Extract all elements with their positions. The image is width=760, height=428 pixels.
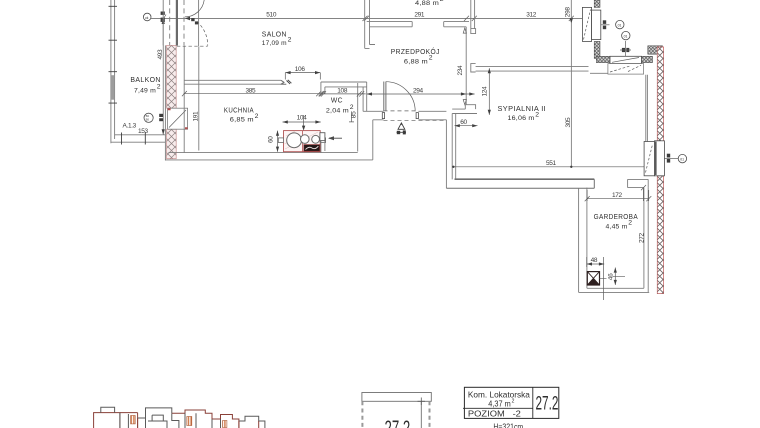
svg-text:4,37 m: 4,37 m <box>488 399 511 408</box>
kitchen counter line west <box>198 46 200 150</box>
svg-text:312: 312 <box>526 12 537 19</box>
center arrow to counter <box>303 115 305 129</box>
north window horizontal <box>610 56 642 63</box>
masonry pier above window <box>594 0 600 7</box>
svg-text:2: 2 <box>255 113 259 120</box>
garderoba east wall double <box>644 188 648 293</box>
svg-text:BALKON: BALKON <box>130 75 160 84</box>
dim line 172 <box>587 188 649 201</box>
garderoba west wall double <box>579 188 587 293</box>
east insulation hatch upper <box>657 47 663 142</box>
dim line 294 <box>367 93 475 95</box>
entry door jamb left <box>382 113 384 119</box>
masonry pier below window <box>594 41 600 58</box>
nook bracket wall <box>465 105 475 109</box>
table outer border <box>464 387 558 418</box>
block 2 stepped <box>138 408 172 428</box>
sill line under corner <box>590 72 608 74</box>
przedpokoj east wall outer with foot <box>471 0 476 34</box>
wc top wall double <box>321 82 367 94</box>
svg-text:4,88 m: 4,88 m <box>415 0 439 7</box>
dim circle datum left <box>143 13 151 21</box>
divider end hook <box>281 80 286 84</box>
svg-text:305: 305 <box>565 117 572 128</box>
svg-text:17,09 m: 17,09 m <box>262 40 287 47</box>
kitchen west inner wall line <box>183 46 185 153</box>
svg-text:01: 01 <box>624 34 628 38</box>
dim line 48 <box>587 257 605 300</box>
door frame thin line <box>162 0 164 45</box>
svg-text:551: 551 <box>546 160 557 167</box>
svg-text:7,49 m: 7,49 m <box>134 87 156 94</box>
sypialnia top wall cap <box>471 64 476 72</box>
dim line 305 vertical <box>570 18 572 166</box>
svg-text:2: 2 <box>512 399 515 405</box>
przedpokoj top wall double left segment <box>367 22 413 27</box>
svg-text:153: 153 <box>138 128 149 135</box>
NE tall window outer <box>582 7 591 41</box>
dim 46 marks <box>600 268 626 286</box>
south thick wall band <box>455 178 595 180</box>
fixture left stub <box>278 138 283 143</box>
east vent circle <box>678 154 686 162</box>
dim line 104 <box>283 121 321 123</box>
wc east wall lines <box>358 82 367 152</box>
mini plan dashed sides <box>362 401 429 428</box>
kitchen south wall outer line <box>165 159 372 161</box>
balcony bottom double line <box>111 135 165 142</box>
orange shaft 1 <box>131 416 136 424</box>
svg-text:2: 2 <box>429 55 433 62</box>
svg-text:2: 2 <box>628 220 632 227</box>
vent marker pair top <box>603 20 606 24</box>
svg-text:2: 2 <box>157 84 161 91</box>
svg-text:172: 172 <box>612 192 623 199</box>
east window inner part <box>655 141 665 176</box>
svg-text:385: 385 <box>246 87 257 94</box>
block 3 <box>172 410 212 428</box>
symbol circle A13 <box>144 113 153 122</box>
wc left wall below door <box>321 141 325 153</box>
balcony rail tick marks <box>109 6 118 103</box>
dim line 551 <box>453 166 648 168</box>
svg-text:Kom. Lokatorska: Kom. Lokatorska <box>468 391 530 400</box>
orange shaft 3 <box>223 421 227 428</box>
svg-text:510: 510 <box>266 12 277 19</box>
svg-text:234: 234 <box>457 65 464 76</box>
east window outer part <box>644 142 654 176</box>
sypialnia top wall double <box>476 66 589 71</box>
vent circle 1 <box>616 20 624 28</box>
kitchen west window <box>168 108 188 129</box>
svg-text:4,45 m: 4,45 m <box>606 223 628 230</box>
svg-text:294: 294 <box>413 88 424 95</box>
top dimension chain line <box>151 17 585 19</box>
table divider horizontal <box>463 407 533 409</box>
nook west wall double <box>446 114 455 189</box>
vent marker pair mid with stem <box>622 48 625 52</box>
drainer dark element <box>304 145 320 152</box>
svg-text:272: 272 <box>638 232 645 243</box>
svg-text:90: 90 <box>146 118 150 122</box>
svg-text:48: 48 <box>591 257 598 264</box>
entrance triangle symbol <box>398 123 405 129</box>
vent circle 2 <box>622 31 630 39</box>
svg-text:291: 291 <box>414 12 425 19</box>
mini plan top band <box>362 393 431 402</box>
direction arrow kitchen <box>329 137 342 139</box>
dim tick cluster at wall west <box>161 12 165 15</box>
tiny door width marks <box>191 18 194 21</box>
dim extension line window NE <box>584 18 586 40</box>
table divider vertical <box>532 387 534 418</box>
dim line 60 nook <box>455 125 478 127</box>
walls of room above <box>570 0 572 18</box>
balcony edge pier fill <box>111 75 115 100</box>
dim tick right end <box>569 16 588 21</box>
shaft box with X <box>587 272 599 285</box>
entrance symbol base marks <box>397 131 400 134</box>
fixture right stub <box>320 138 325 143</box>
dim line 106 kitchen opening <box>285 73 320 80</box>
svg-text:2: 2 <box>288 37 292 44</box>
svg-text:2,04 m: 2,04 m <box>326 107 349 114</box>
svg-text:124: 124 <box>482 86 489 97</box>
kitchen south wall inner line <box>168 152 357 154</box>
przedpokoj south wall lower line <box>373 119 447 121</box>
sink bowl large circle <box>287 133 302 148</box>
block 1 <box>94 413 120 428</box>
west wall outer face line <box>164 45 166 160</box>
threshold dashed <box>177 45 208 47</box>
dim tick at salon east wall <box>363 16 370 21</box>
dim arrow at salon west face <box>185 17 190 21</box>
entry door swing arc <box>386 82 415 112</box>
west wall insulation hatch lower <box>167 129 177 159</box>
svg-text:WC: WC <box>331 96 343 105</box>
svg-text:SALON: SALON <box>262 30 287 39</box>
west wall insulation hatch upper <box>167 45 177 108</box>
przedpokoj east wall <box>465 27 467 105</box>
svg-text:60: 60 <box>268 136 275 143</box>
salon east wall double <box>365 0 375 48</box>
masonry run east of corner <box>596 56 610 62</box>
corridor west wall line <box>372 120 374 160</box>
orange shaft 2 <box>187 417 192 426</box>
svg-text:60: 60 <box>460 119 467 126</box>
divider wall double line <box>184 80 281 84</box>
svg-text:2: 2 <box>535 112 539 119</box>
north window sill box <box>608 64 644 75</box>
dim line 385 <box>184 93 323 95</box>
svg-text:A.1.3: A.1.3 <box>123 122 137 129</box>
masonry corner NE piece <box>642 56 653 62</box>
svg-text:104: 104 <box>297 115 308 122</box>
burner circle mid <box>301 135 310 144</box>
dim line 124 vertical <box>488 68 490 115</box>
east vent marker pair <box>667 154 670 158</box>
dim tick at przedpokoj east wall <box>464 16 477 21</box>
wall tick cluster near circle <box>159 114 163 117</box>
svg-text:6,88 m: 6,88 m <box>404 58 428 65</box>
fixture divider red <box>302 131 304 152</box>
dim line 108 <box>318 93 366 95</box>
wc door jamb block <box>320 133 325 141</box>
svg-text:16,06 m: 16,06 m <box>508 115 535 122</box>
door frame dashed lines <box>170 0 184 45</box>
balcony left edge double line <box>111 0 115 143</box>
svg-text:2: 2 <box>350 104 354 111</box>
door leaf thick line <box>176 0 178 46</box>
glass line <box>198 0 200 46</box>
nook wall horizontal double <box>452 109 477 113</box>
svg-text:27.2: 27.2 <box>385 416 411 428</box>
block 4 <box>212 415 239 428</box>
svg-text:106: 106 <box>295 66 306 73</box>
svg-text:6,85 m: 6,85 m <box>230 116 254 123</box>
dim line 493 vertical <box>162 18 164 134</box>
garderoba top wall right segment <box>628 179 649 187</box>
svg-text:01: 01 <box>618 23 622 27</box>
svg-text:493: 493 <box>157 49 164 60</box>
svg-text:ok: ok <box>145 16 149 20</box>
block 5 <box>239 416 265 428</box>
fixture counter outline red <box>284 131 321 152</box>
entry door jamb right <box>416 113 418 119</box>
entry door threshold dashed <box>384 110 419 112</box>
east insulation hatch lower <box>657 176 663 294</box>
svg-text:27.2: 27.2 <box>536 394 559 414</box>
east wall inner face line <box>646 75 648 142</box>
garderoba south wall double <box>579 288 650 292</box>
entry door leaf <box>384 82 386 112</box>
svg-text:298: 298 <box>565 7 572 18</box>
NE tall window inner <box>592 10 601 39</box>
svg-text:POZIOM -2: POZIOM -2 <box>468 409 521 418</box>
przedpokoj south wall upper line <box>363 110 446 112</box>
door swing arc dashed <box>197 22 208 46</box>
przedpokoj top wall double right segment <box>444 22 469 27</box>
svg-text:H=321cm: H=321cm <box>493 423 523 428</box>
burner circle small <box>312 135 320 143</box>
svg-text:46: 46 <box>608 273 615 280</box>
door swing arc solid <box>185 0 204 17</box>
svg-text:KUCHNIA: KUCHNIA <box>224 106 254 115</box>
svg-text:2: 2 <box>440 0 444 3</box>
svg-text:108: 108 <box>337 88 348 95</box>
svg-text:01: 01 <box>680 157 684 161</box>
mini plan inner line <box>420 401 422 428</box>
